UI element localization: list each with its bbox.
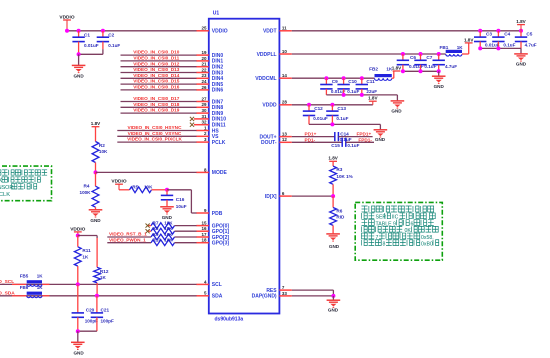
pin 5 SDA stub (196, 291, 222, 300)
svg-text:22uF: 22uF (366, 89, 377, 94)
no-connect X pin 31 DIN10 (190, 117, 194, 121)
capacitor C3 0.01uF (474, 31, 500, 49)
svg-text:32: 32 (201, 120, 207, 125)
svg-text:19: 19 (201, 50, 207, 55)
capacitor C5 4.7uF (515, 31, 537, 49)
svg-text:1K: 1K (457, 45, 464, 50)
net label IO_SDA (0, 291, 15, 297)
pin 32 DIN11 stub (194, 120, 226, 129)
svg-text:VIDEO_IN_CSI0_D13: VIDEO_IN_CSI0_D13 (133, 67, 180, 72)
wire C1/C2 bottoms (77, 52, 103, 56)
capacitor C4 0.1uF (492, 31, 515, 49)
resistor R9 10K on GPO[2] (107, 232, 196, 240)
node MODE junction (94, 170, 98, 174)
junction dots VDDD rail (307, 103, 334, 107)
svg-text:GND: GND (391, 108, 402, 113)
svg-text:R8: R8 (153, 226, 159, 231)
resistor R6 RID (330, 196, 345, 234)
node VDDIO pullup junction (76, 234, 80, 238)
wire and net label VIDEO_IN_CSI0_HSYNC (117, 125, 196, 130)
svg-text:GND: GND (73, 350, 84, 355)
svg-text:8: 8 (383, 242, 386, 248)
svg-text:21: 21 (201, 62, 207, 67)
ground below C5 (514, 54, 528, 67)
svg-text:DIN6: DIN6 (212, 88, 224, 94)
svg-text:VDDT: VDDT (263, 29, 277, 35)
svg-text:5: 5 (204, 291, 207, 296)
pin 13 DOUT+ stub (260, 132, 292, 141)
wire and net label VIDEO_IN_CSI0_D10 (121, 50, 197, 55)
pin 27 DIN7 stub (196, 96, 223, 105)
svg-text:33: 33 (282, 291, 288, 296)
wire SCL (0, 283, 197, 285)
power flag 1.8V above R3 (328, 156, 338, 166)
ground below R4 (89, 210, 103, 223)
svg-text:VIDEO_IN_CSI0_D16: VIDEO_IN_CSI0_D16 (133, 85, 180, 90)
ferrite bead FB6 1K (12, 285, 50, 298)
ground below R6 (326, 234, 340, 249)
wire and net label VIDEO_IN_CSI0_D15 (121, 79, 197, 84)
junction dots on VDDIO wire (65, 29, 105, 33)
svg-text:30: 30 (201, 108, 207, 113)
wire DOUT+ with net label PD1+ (292, 132, 335, 137)
wire RES pin 7 (292, 290, 334, 296)
svg-text:23: 23 (201, 73, 207, 78)
svg-text:R6: R6 (336, 208, 342, 213)
svg-text:VIDEO_IN_CSI0_PIXCLK: VIDEO_IN_CSI0_PIXCLK (127, 137, 182, 142)
pin 6 ID[X] stub (265, 191, 292, 200)
svg-text:VIDEO_IN_CSI0_D11: VIDEO_IN_CSI0_D11 (133, 56, 179, 61)
pin 31 DIN10 stub (194, 114, 226, 123)
svg-text:IIC: IIC (392, 215, 399, 221)
wire PDB node to pin 9 (167, 190, 197, 213)
no-connect X pin 32 DIN11 (190, 123, 194, 127)
svg-text:VIDEO_IN_CSI0_HSYNC: VIDEO_IN_CSI0_HSYNC (128, 125, 183, 130)
svg-text:C3: C3 (486, 31, 492, 36)
pin 29 DIN8 stub (196, 102, 223, 111)
svg-text:27: 27 (201, 96, 207, 101)
capacitor C7 0.1uF (414, 54, 436, 71)
svg-text:8: 8 (204, 167, 207, 172)
wire C20/C21 bottoms (76, 329, 97, 333)
wire to ground bottom-left (77, 331, 79, 342)
wire C6/C7/C8 ground rail (401, 69, 441, 73)
U1 part value ds90ub913a (215, 317, 244, 323)
node PDB junction (165, 188, 169, 192)
svg-text:0xB0: 0xB0 (421, 242, 433, 248)
svg-text:10: 10 (282, 49, 288, 54)
wire VDDIO to pin 25 (67, 30, 197, 32)
power flag 1.8V at FB1 (464, 37, 474, 43)
svg-text:VIDEO_PWDN_1: VIDEO_PWDN_1 (109, 237, 146, 242)
svg-text:4.7uF: 4.7uF (525, 43, 537, 48)
wire and net label VIDEO_IN_CSI0_D19 (121, 108, 197, 113)
wire VDDD rail (292, 104, 373, 106)
wire VDDT rail (292, 30, 521, 32)
svg-text:0.01uF: 0.01uF (313, 116, 328, 121)
pin 16 GPO[1] stub (196, 226, 229, 235)
svg-text:GND: GND (162, 215, 173, 220)
svg-text:GND: GND (73, 74, 84, 79)
svg-text:R4: R4 (84, 183, 90, 188)
svg-text:24: 24 (201, 79, 207, 84)
resistor R11 1K (74, 236, 91, 285)
wire ID[X] pin 6 (292, 195, 333, 197)
svg-text:R3: R3 (336, 167, 342, 172)
svg-text:100K: 100K (80, 190, 92, 195)
svg-text:GND: GND (516, 61, 527, 66)
svg-text:C11: C11 (366, 79, 375, 84)
svg-text:VDDPLL: VDDPLL (257, 52, 277, 58)
capacitor C11 22uF (356, 78, 378, 95)
svg-text:PD1+: PD1+ (305, 132, 317, 137)
svg-text:VDDIO: VDDIO (59, 14, 74, 20)
svg-text:GND: GND (90, 218, 101, 223)
svg-text:VIDEO_IN_CSI0_D18: VIDEO_IN_CSI0_D18 (133, 102, 180, 107)
ground below VDDD rail (374, 130, 388, 142)
svg-text:4: 4 (204, 279, 207, 284)
wire VDDIO flag to R5 (119, 189, 130, 191)
pin 24 DIN5 stub (196, 79, 223, 88)
junction dots VDDT rail (478, 29, 523, 33)
svg-text:0.1uF: 0.1uF (503, 43, 515, 48)
capacitor C12 0.01uF (303, 105, 328, 125)
svg-text:C6: C6 (410, 55, 416, 60)
svg-text:10K: 10K (164, 238, 173, 243)
svg-text:10K: 10K (164, 226, 173, 231)
svg-text:R10: R10 (153, 238, 162, 243)
wire R2 to MODE node (95, 163, 97, 173)
wire FB2 to 1.8V (392, 71, 394, 78)
capacitor C9 0.01uF (320, 78, 345, 95)
wire R5 to PDB node (152, 189, 168, 191)
resistor R8 10K on GPO[1] (146, 226, 197, 234)
capacitor C16 10uF (161, 190, 187, 209)
svg-text:C15: C15 (331, 143, 340, 148)
wire rail to ground (520, 48, 522, 54)
capacitor C20 100pF (72, 284, 99, 331)
wire DAP pin 33 (292, 295, 334, 297)
svg-text:0.1uF: 0.1uF (336, 116, 348, 121)
svg-text:0.01uF: 0.01uF (84, 43, 99, 48)
svg-text:GPO[3]: GPO[3] (212, 241, 230, 247)
svg-text:R9: R9 (153, 232, 159, 237)
svg-text:VIDEO_RST_B_1: VIDEO_RST_B_1 (109, 232, 147, 237)
pin 2 VS stub (196, 131, 219, 140)
svg-text:100pF: 100pF (85, 318, 98, 323)
svg-text:2: 2 (204, 131, 207, 136)
svg-text:R12: R12 (100, 269, 109, 274)
capacitor C13 0.1uF (326, 105, 348, 125)
svg-text:PCLK: PCLK (0, 192, 10, 198)
svg-text:FB5: FB5 (20, 274, 29, 279)
svg-text:C1: C1 (84, 33, 90, 38)
capacitor C21 100pF (91, 296, 114, 331)
resistor R7 10K on GPO[0] (146, 221, 197, 229)
svg-text:10K: 10K (144, 184, 153, 189)
power flag VDDIO above R5 (111, 179, 126, 190)
svg-text:C9: C9 (332, 79, 338, 84)
wire and net label VIDEO_IN_CSI0_D17 (121, 96, 197, 101)
svg-text:1: 1 (204, 125, 207, 130)
wire and net label VIDEO_IN_CSI0_D11 (121, 56, 197, 61)
wire DOUT- with net label PD1- (292, 137, 342, 142)
pin 14 VDDCML stub (255, 73, 292, 82)
svg-text:C21: C21 (101, 307, 110, 312)
svg-text:C4: C4 (504, 31, 510, 36)
op-amp U1 ds90ub913a serializer IC body (209, 19, 280, 314)
svg-text:VDDCML: VDDCML (255, 76, 276, 82)
pin 21 DIN2 stub (196, 62, 223, 71)
node RES/DAP junction (331, 294, 335, 298)
svg-text:16: 16 (201, 226, 207, 231)
net label IO_SCL (0, 279, 14, 285)
capacitor C8 4.7uF (433, 54, 458, 71)
svg-text:FPD1+: FPD1+ (357, 132, 372, 137)
wire FB1 to 1.8V (462, 43, 469, 54)
svg-text:6: 6 (411, 221, 414, 227)
svg-text:1.8V: 1.8V (392, 65, 402, 70)
svg-text:20: 20 (201, 56, 207, 61)
svg-text:VDDIO: VDDIO (212, 29, 228, 35)
svg-text:3: 3 (204, 137, 207, 142)
svg-text:29: 29 (201, 102, 207, 107)
wire VDDIO node to R12 branch (78, 236, 97, 239)
pin 33 DAP(GND) stub (252, 291, 292, 300)
power flag 1.8V above R2 (91, 121, 101, 141)
resistor R4 100K (80, 183, 99, 207)
wire rail to ground (396, 95, 398, 101)
svg-text:11: 11 (282, 26, 287, 31)
svg-text:DOUT-: DOUT- (261, 140, 277, 146)
svg-text:0.1uF: 0.1uF (347, 89, 359, 94)
svg-text:C16: C16 (176, 197, 185, 202)
svg-text:22: 22 (201, 67, 207, 72)
svg-text:100pF: 100pF (101, 318, 114, 323)
wire and net label VIDEO_IN_CSI0_D13 (121, 67, 197, 72)
wire rail to ground (438, 71, 440, 76)
svg-text:DAP(GND): DAP(GND) (252, 294, 277, 300)
svg-text:VIDEO_IN_CSI0_D14: VIDEO_IN_CSI0_D14 (133, 73, 180, 78)
power flag VDDIO above R11 (70, 226, 85, 235)
svg-text:C7: C7 (426, 55, 432, 60)
wire VDDPLL rail (292, 53, 446, 55)
wire C9/C10/C11 ground rail (326, 93, 397, 97)
svg-text:GND: GND (328, 308, 339, 313)
svg-text:10uF: 10uF (176, 204, 187, 209)
node R11 SCL junction (76, 282, 80, 286)
junction dots VDDPLL rail (401, 52, 441, 56)
ground below C16 (160, 207, 174, 220)
wire VDDCML rail (292, 77, 375, 79)
ground below C1 (72, 65, 86, 78)
svg-text:ID[X]: ID[X] (265, 194, 277, 200)
svg-text:PDB: PDB (212, 211, 223, 217)
pin 1 HS stub (196, 125, 219, 134)
svg-text:VIDEO_IN_CSI0_D15: VIDEO_IN_CSI0_D15 (133, 79, 180, 84)
svg-text:18: 18 (201, 238, 207, 243)
svg-text:10K: 10K (164, 232, 173, 237)
U1 reference designator (213, 11, 220, 17)
svg-text:VIDEO_IN_CSI0_D10: VIDEO_IN_CSI0_D10 (133, 50, 180, 55)
svg-text:C13: C13 (337, 106, 346, 111)
junction dots VDDCML rail (324, 76, 363, 80)
svg-text:9: 9 (204, 208, 207, 213)
svg-text:1K: 1K (37, 274, 44, 279)
resistor R3 10K 1% (330, 166, 353, 184)
pin 17 GPO[2] stub (196, 232, 229, 241)
svg-text:R5: R5 (132, 184, 138, 189)
annotation box 2 (IIC address note) (355, 202, 442, 260)
wire and net label VIDEO_IN_CSI0_D16 (121, 85, 197, 90)
resistor R10 10K on GPO[3] (107, 237, 196, 245)
svg-text:PD1-: PD1- (305, 137, 316, 142)
pin 28 VDDD stub (262, 100, 291, 109)
svg-text:1.8V: 1.8V (91, 121, 101, 126)
svg-text:C2: C2 (108, 33, 114, 38)
wire MODE to pin 8 (96, 171, 197, 173)
svg-text:VDDIO: VDDIO (111, 179, 126, 185)
resistor R2 10K (92, 142, 108, 163)
svg-text:GND: GND (329, 244, 340, 249)
ground below DAP (327, 300, 341, 312)
svg-text:VDDIO: VDDIO (70, 226, 85, 232)
svg-text:31: 31 (201, 114, 207, 119)
ferrite bead FB2 1K (369, 67, 393, 81)
svg-text:C20: C20 (86, 307, 95, 312)
power flag 1.8V above C5 (516, 19, 526, 31)
svg-text:C5: C5 (526, 31, 532, 36)
svg-text:12: 12 (282, 137, 288, 142)
svg-text:10K 1%: 10K 1% (336, 174, 352, 179)
wire rail to ground (379, 124, 381, 129)
node ID junction (331, 194, 335, 198)
svg-text:R2: R2 (99, 143, 105, 148)
svg-text:26: 26 (201, 85, 207, 90)
svg-text:PCLK: PCLK (212, 140, 226, 146)
pin 20 DIN1 stub (196, 56, 223, 65)
resistor R5 10K (130, 184, 154, 192)
svg-text:R11: R11 (82, 248, 91, 253)
ground below C8 (432, 76, 446, 89)
ferrite bead FB5 1K (12, 274, 50, 287)
capacitor C6 0.01uF (397, 54, 424, 71)
wire node to R4 (95, 172, 97, 186)
svg-text:FB2: FB2 (369, 67, 378, 72)
capacitor C14 0.1uF series (335, 132, 352, 142)
wire and net label VIDEO_IN_CSI0_D14 (121, 73, 197, 78)
power flag VDDIO top-left (59, 14, 74, 30)
power flag 1.8V at VDDD (368, 96, 378, 105)
svg-text:13: 13 (282, 132, 288, 137)
svg-text:0.1uF: 0.1uF (347, 143, 359, 148)
pin 23 DIN4 stub (196, 73, 223, 82)
pin 11 VDDT stub (263, 26, 292, 35)
svg-text:1K: 1K (37, 285, 44, 290)
pin 22 DIN3 stub (196, 67, 223, 76)
svg-text:U1: U1 (213, 11, 220, 17)
wire and net label VIDEO_IN_CSI0_PIXCLK (117, 137, 196, 142)
svg-text:GND: GND (434, 84, 445, 89)
wire and net label VIDEO_IN_CSI0_D18 (121, 102, 197, 107)
svg-text:25: 25 (201, 26, 207, 31)
ground right of FB2 (391, 101, 405, 114)
pin 26 DIN6 stub (196, 85, 223, 94)
pin 7 RES stub (266, 285, 291, 294)
svg-text:1.8V: 1.8V (464, 37, 474, 42)
svg-text:C12: C12 (314, 106, 323, 111)
pin 30 DIN9 stub (196, 108, 223, 117)
svg-text:28: 28 (282, 100, 288, 105)
annotation box 1 (Chinese note, clipped at left edge) (0, 166, 52, 201)
svg-text:VIDEO_IN_CSI0_D12: VIDEO_IN_CSI0_D12 (133, 61, 180, 66)
ground below C20 (71, 342, 85, 355)
pin 15 GPO[0] stub (196, 221, 229, 230)
svg-text:1.8V: 1.8V (328, 156, 338, 161)
svg-text:VIDEO_IN_CSI0_D17: VIDEO_IN_CSI0_D17 (133, 96, 180, 101)
capacitor C2 0.1uF (97, 31, 121, 55)
wire and net label VIDEO_IN_CSI0_VSYNC (117, 131, 196, 136)
pin 25 VDDIO stub (196, 26, 227, 35)
svg-text:GND: GND (375, 137, 386, 142)
svg-text:FB1: FB1 (440, 45, 449, 50)
svg-text:ds90ub913a: ds90ub913a (215, 317, 244, 323)
svg-text:17: 17 (201, 232, 207, 237)
ferrite bead FB1 1K (440, 45, 464, 56)
wire C12/C13 ground rail (309, 122, 380, 126)
pin 4 SCL stub (196, 279, 222, 288)
wire R4 to ground (95, 207, 97, 210)
power flag 1.8V at FB2 (392, 65, 402, 71)
svg-text:RID: RID (336, 215, 345, 220)
node R12 SDA junction (95, 294, 99, 298)
pin 19 DIN0 stub (196, 50, 223, 59)
svg-text:0x58.: 0x58. (421, 235, 434, 241)
wire to ground (78, 54, 80, 65)
svg-text:10K: 10K (164, 221, 173, 226)
wire R3 to ID node (332, 184, 334, 196)
wire C14 to FPD1+ (338, 132, 372, 137)
wire to ground (332, 296, 334, 300)
svg-text:15: 15 (201, 221, 207, 226)
wire and net label VIDEO_IN_CSI0_D12 (121, 61, 197, 66)
svg-text:VIDEO_IN_CSI0_VSYNC: VIDEO_IN_CSI0_VSYNC (128, 131, 182, 136)
svg-text:FPD1-: FPD1- (358, 137, 372, 142)
pin 8 MODE stub (196, 167, 227, 176)
svg-text:7: 7 (282, 285, 285, 290)
pin 9 PDB stub (196, 208, 222, 217)
svg-text:MODE: MODE (212, 170, 228, 176)
svg-text:14: 14 (282, 73, 288, 78)
svg-text:1K: 1K (82, 254, 89, 259)
svg-text:R7: R7 (153, 221, 159, 226)
pin 12 DOUT- stub (261, 137, 292, 146)
wire SDA (0, 295, 197, 297)
svg-text:C10: C10 (348, 79, 357, 84)
resistor R12 1K (94, 238, 109, 296)
svg-text:6: 6 (282, 191, 285, 196)
pin 3 PCLK stub (196, 137, 226, 146)
pin 10 VDDPLL stub (257, 49, 292, 58)
pin 18 GPO[3] stub (196, 238, 229, 247)
svg-text:SCL: SCL (212, 282, 222, 288)
capacitor C15 0.1uF series (331, 138, 359, 148)
svg-text:SDA: SDA (212, 294, 223, 300)
svg-text:1K: 1K (100, 275, 107, 280)
svg-text:1.8V: 1.8V (368, 96, 378, 101)
wire C3/C4/C5 ground rail (478, 46, 521, 50)
svg-text:0.1uF: 0.1uF (108, 43, 120, 48)
